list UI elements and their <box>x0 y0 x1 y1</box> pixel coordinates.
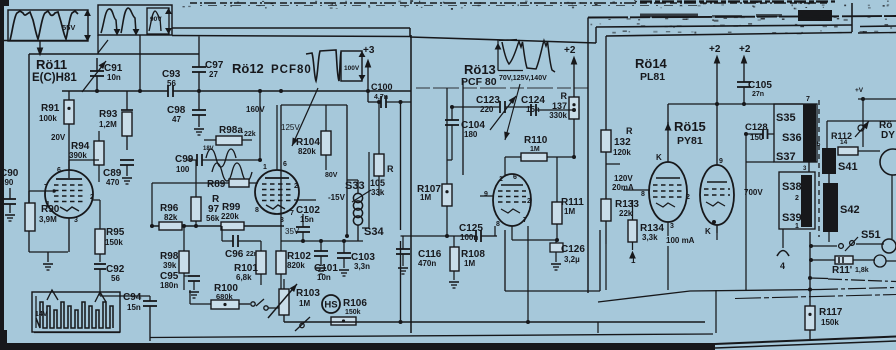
svg-text:R: R <box>387 164 394 174</box>
svg-text:120k: 120k <box>613 148 631 157</box>
svg-text:3,2µ: 3,2µ <box>564 255 580 264</box>
svg-text:1: 1 <box>263 164 267 171</box>
svg-text:150k: 150k <box>821 318 839 327</box>
svg-text:K: K <box>656 153 662 162</box>
svg-text:22k: 22k <box>244 131 256 138</box>
svg-text:PCF 80: PCF 80 <box>461 76 497 88</box>
svg-text:1M: 1M <box>420 193 431 202</box>
svg-text:680k: 680k <box>216 292 234 301</box>
svg-text:C96: C96 <box>225 249 244 260</box>
svg-text:14V: 14V <box>35 311 48 318</box>
svg-text:27: 27 <box>209 70 218 79</box>
svg-text:+2: +2 <box>739 44 751 55</box>
svg-text:HS: HS <box>324 300 337 311</box>
svg-text:+2: +2 <box>709 44 721 55</box>
svg-text:14: 14 <box>840 139 848 146</box>
svg-text:R11': R11' <box>832 265 852 276</box>
svg-text:R: R <box>561 91 568 101</box>
svg-text:Rö15: Rö15 <box>674 119 706 134</box>
svg-text:15n: 15n <box>526 105 540 114</box>
svg-text:180: 180 <box>464 130 478 139</box>
svg-text:8: 8 <box>496 221 500 228</box>
svg-text:E(C)H81: E(C)H81 <box>32 72 77 84</box>
svg-text:470: 470 <box>106 178 120 187</box>
svg-text:S35: S35 <box>776 112 796 124</box>
svg-text:R117: R117 <box>819 307 843 318</box>
svg-text:132: 132 <box>614 137 631 148</box>
svg-text:9: 9 <box>719 158 723 165</box>
svg-text:47: 47 <box>172 115 181 124</box>
svg-text:R95: R95 <box>106 227 125 238</box>
svg-text:3,3k: 3,3k <box>642 233 658 242</box>
svg-text:820k: 820k <box>298 147 316 156</box>
svg-text:C94: C94 <box>123 292 142 303</box>
svg-text:120V: 120V <box>614 174 633 183</box>
svg-text:4: 4 <box>780 261 785 271</box>
svg-text:56k: 56k <box>206 214 220 223</box>
svg-text:6: 6 <box>513 174 517 181</box>
svg-text:220k: 220k <box>221 212 239 221</box>
svg-text:S41: S41 <box>838 161 858 173</box>
svg-text:1M: 1M <box>530 146 540 153</box>
svg-text:15n: 15n <box>300 215 314 224</box>
svg-text:R106: R106 <box>343 298 367 309</box>
svg-text:R90: R90 <box>41 204 60 215</box>
svg-text:820k: 820k <box>287 261 305 270</box>
svg-text:33k: 33k <box>371 188 385 197</box>
svg-text:2: 2 <box>686 194 690 201</box>
svg-text:470n: 470n <box>418 259 436 268</box>
svg-text:20V: 20V <box>51 133 66 142</box>
svg-text:-15V: -15V <box>328 193 346 202</box>
svg-text:+V: +V <box>855 87 864 94</box>
svg-text:S42: S42 <box>840 204 860 216</box>
svg-text:2: 2 <box>795 195 799 202</box>
svg-text:1,8k: 1,8k <box>855 267 869 274</box>
svg-text:390k: 390k <box>69 151 87 160</box>
svg-text:R89: R89 <box>207 179 226 190</box>
svg-text:15n: 15n <box>127 303 141 312</box>
svg-text:K: K <box>705 227 711 236</box>
svg-text:125V: 125V <box>281 123 300 132</box>
svg-text:+3: +3 <box>363 45 375 56</box>
svg-text:10n: 10n <box>107 73 121 82</box>
svg-text:Rö12: Rö12 <box>232 61 264 76</box>
svg-text:160V: 160V <box>246 105 265 114</box>
svg-text:PY81: PY81 <box>677 135 703 147</box>
svg-text:1: 1 <box>795 223 799 230</box>
svg-text:180n: 180n <box>160 281 178 290</box>
svg-text:8: 8 <box>255 207 259 214</box>
svg-text:56: 56 <box>167 79 176 88</box>
svg-text:1: 1 <box>631 256 636 265</box>
svg-text:R93: R93 <box>99 109 118 120</box>
svg-text:100: 100 <box>176 165 190 174</box>
svg-text:+2: +2 <box>564 45 576 56</box>
svg-text:6: 6 <box>283 161 287 168</box>
svg-text:220: 220 <box>480 105 494 114</box>
svg-text:R103: R103 <box>296 288 320 299</box>
svg-text:3: 3 <box>280 217 284 224</box>
svg-text:55V: 55V <box>62 23 75 32</box>
svg-text:S33: S33 <box>345 180 365 192</box>
svg-text:1M: 1M <box>299 299 310 308</box>
svg-text:330k: 330k <box>549 111 567 120</box>
svg-text:2: 2 <box>527 198 531 205</box>
svg-text:4,7n: 4,7n <box>374 94 388 101</box>
svg-text:3,3n: 3,3n <box>354 262 370 271</box>
svg-text:80V: 80V <box>325 172 338 179</box>
svg-text:56: 56 <box>111 274 120 283</box>
svg-text:S34: S34 <box>364 226 384 238</box>
svg-text:27n: 27n <box>752 91 764 98</box>
svg-text:C128: C128 <box>745 122 768 133</box>
svg-text:150k: 150k <box>345 309 361 316</box>
svg-text:100 mA: 100 mA <box>666 236 695 245</box>
svg-text:82k: 82k <box>164 213 178 222</box>
svg-text:S38: S38 <box>782 181 802 193</box>
svg-text:1M: 1M <box>564 207 575 216</box>
svg-text:R91: R91 <box>41 103 60 114</box>
svg-text:105: 105 <box>370 178 385 188</box>
svg-text:7: 7 <box>290 210 294 217</box>
svg-text:39k: 39k <box>163 261 177 270</box>
svg-text:3: 3 <box>670 223 674 230</box>
svg-text:7: 7 <box>44 184 48 191</box>
svg-text:PCF80: PCF80 <box>271 64 312 76</box>
svg-text:2: 2 <box>294 183 298 190</box>
svg-text:6: 6 <box>57 167 61 174</box>
svg-text:90V: 90V <box>150 16 162 23</box>
svg-text:S51: S51 <box>861 229 881 241</box>
svg-text:700V: 700V <box>744 188 763 197</box>
svg-text:PL81: PL81 <box>640 71 665 83</box>
svg-text:70V,125V,140V: 70V,125V,140V <box>499 75 547 82</box>
svg-text:100V: 100V <box>344 65 360 72</box>
svg-text:100k: 100k <box>39 114 57 123</box>
svg-text:20mA: 20mA <box>612 183 634 192</box>
svg-text:S37: S37 <box>776 151 796 163</box>
svg-text:C126: C126 <box>561 244 585 255</box>
svg-text:1: 1 <box>499 176 503 183</box>
svg-text:C105: C105 <box>748 80 772 91</box>
svg-text:Rö14: Rö14 <box>635 56 668 71</box>
svg-text:R98a: R98a <box>219 125 243 136</box>
svg-text:10n: 10n <box>317 273 331 282</box>
svg-text:100n: 100n <box>460 233 478 242</box>
svg-text:390: 390 <box>0 178 14 187</box>
svg-text:9: 9 <box>484 191 488 198</box>
svg-text:150k: 150k <box>105 238 123 247</box>
svg-text:R: R <box>626 126 633 136</box>
svg-text:7: 7 <box>523 217 527 224</box>
svg-text:S36: S36 <box>782 132 802 144</box>
svg-text:C100: C100 <box>371 82 393 92</box>
svg-text:7: 7 <box>806 96 810 103</box>
svg-text:22k: 22k <box>619 209 633 218</box>
svg-text:R110: R110 <box>524 135 548 146</box>
svg-text:6,8k: 6,8k <box>236 273 252 282</box>
svg-text:1,2M: 1,2M <box>99 120 117 129</box>
svg-text:DY: DY <box>881 130 895 141</box>
svg-text:1M: 1M <box>464 259 475 268</box>
svg-text:Rö13: Rö13 <box>464 62 496 77</box>
svg-text:3: 3 <box>74 217 78 224</box>
svg-text:3,9M: 3,9M <box>39 215 57 224</box>
svg-text:Rö11: Rö11 <box>36 57 67 72</box>
svg-text:18V: 18V <box>203 146 214 152</box>
svg-text:8: 8 <box>641 191 645 198</box>
